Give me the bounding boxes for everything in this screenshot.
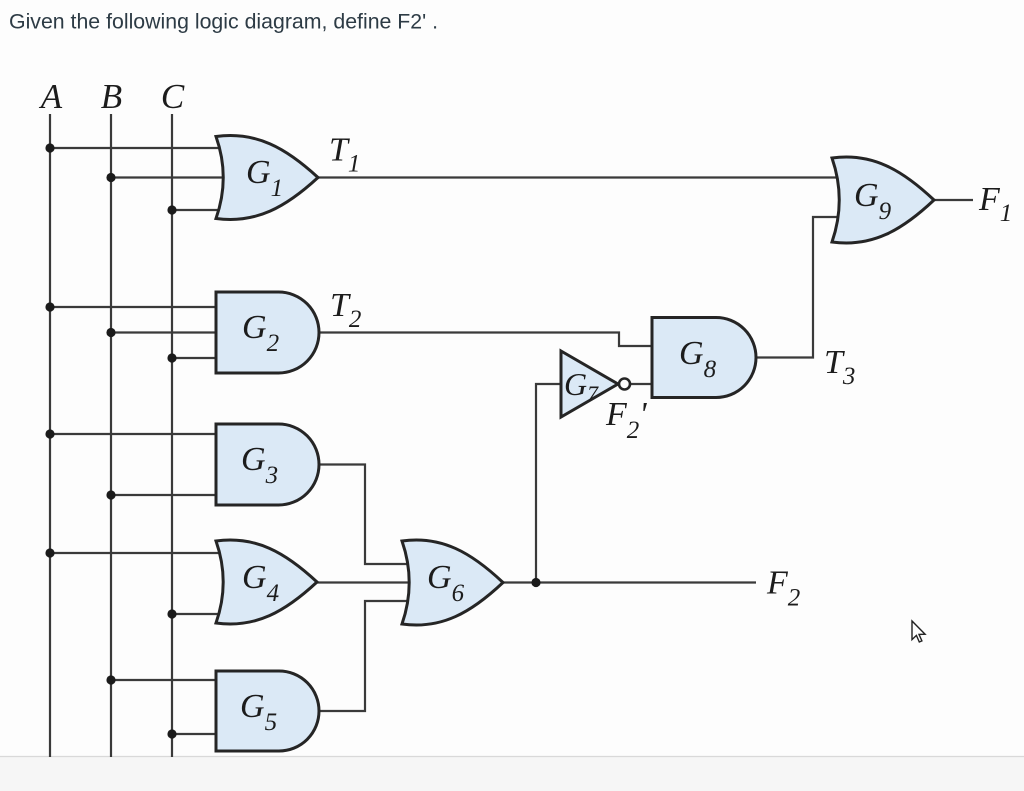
wire C to G4 [172, 613, 230, 615]
wire G3 output to G6 [319, 465, 412, 565]
input line B [110, 114, 112, 757]
or-gate G9 [832, 157, 934, 243]
wire A to G1 [50, 147, 230, 149]
wire node F2 to G7 input [536, 384, 565, 583]
bottom strip [0, 757, 1024, 791]
wire G5 output to G6 [319, 601, 412, 711]
and-gate G8 [652, 318, 756, 398]
wire C to G5 [172, 733, 218, 735]
inverter G7 [561, 351, 618, 417]
wire A to G3 [50, 433, 218, 435]
wire G7 bubble to G8 [630, 383, 656, 385]
node A-G2 [45, 302, 54, 311]
wire C to G2 [172, 357, 218, 359]
and-gate G5 [216, 671, 319, 751]
or-gate G4 [216, 540, 317, 624]
wire A to G2 [50, 306, 218, 308]
node F2 junction [531, 578, 540, 587]
wire G4 output to G6 [317, 581, 412, 583]
wire F2: G6 output [503, 581, 756, 583]
node B-G3 [106, 490, 115, 499]
svg-text:A: A [39, 77, 63, 116]
node A-G3 [45, 429, 54, 438]
svg-text:B: B [101, 77, 122, 116]
input line C [171, 114, 173, 757]
svg-text:7: 7 [587, 381, 599, 406]
node B-G1 [106, 173, 115, 182]
node B-G5 [106, 675, 115, 684]
and-gate G2 [216, 292, 319, 373]
node A-G1 [45, 143, 54, 152]
node A-G4 [45, 548, 54, 557]
input line A [49, 114, 51, 757]
node B-G2 [106, 328, 115, 337]
wire T2: G2 output to G8 [319, 333, 656, 347]
mouse cursor [912, 621, 925, 642]
svg-text:Given the following logic diag: Given the following logic diagram, defin… [9, 10, 438, 34]
node C-G4 [167, 609, 176, 618]
wire B to G3 [111, 494, 218, 496]
wire B to G2 [111, 331, 218, 333]
wire A to G4 [50, 552, 230, 554]
wire G9 output to F1 [934, 199, 973, 201]
node C-G2 [167, 353, 176, 362]
svg-text:C: C [161, 77, 185, 116]
and-gate G3 [216, 424, 319, 505]
svg-text:G: G [564, 366, 587, 402]
or-gate G1 [216, 135, 318, 219]
wire C to G1 [172, 209, 230, 211]
or-gate G6 [402, 540, 503, 625]
node C-G5 [167, 729, 176, 738]
wire T1: G1 output to G9 [318, 176, 842, 178]
inverter G7 bubble [619, 379, 630, 390]
wire T3: G8 output to G9 [756, 217, 842, 358]
node C-G1 [167, 205, 176, 214]
wire B to G5 [111, 679, 218, 681]
wire B to G1 [111, 176, 226, 178]
